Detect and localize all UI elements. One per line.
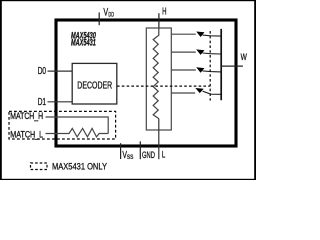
svg-text:DECODER: DECODER (77, 80, 112, 92)
switch SW4 arm (203, 91, 222, 94)
dashed control bus vertical (209, 31, 211, 101)
svg-text:H: H (162, 7, 166, 18)
switch SW3 arrow (196, 67, 204, 73)
svg-text:MATCH_L: MATCH_L (10, 129, 43, 139)
svg-text:GND: GND (142, 150, 155, 160)
pin L wire (158, 119, 160, 160)
tap wire 1 (171, 33, 196, 35)
svg-text:SS: SS (127, 154, 133, 161)
svg-text:MATCH_H: MATCH_H (10, 111, 43, 121)
wire MATCH_H (46, 117, 109, 134)
switch SW3 arm (203, 71, 222, 72)
pin VDD stub (98, 12, 100, 25)
tap wire 3 (171, 69, 196, 71)
svg-text:MAX5431 ONLY: MAX5431 ONLY (52, 162, 108, 173)
switch SW1 arrow (196, 32, 204, 38)
resistor ladder zigzag (153, 28, 159, 119)
svg-text:MAX5431: MAX5431 (71, 38, 96, 48)
pin H wire (158, 13, 160, 29)
pin W wire (221, 65, 243, 67)
svg-text:D0: D0 (38, 66, 47, 77)
wiper bus (220, 29, 222, 100)
switch SW1 arm (203, 35, 222, 36)
MATCH option dashed box (9, 111, 116, 139)
wire D1 to decoder (48, 101, 73, 103)
resistor ladder box (146, 28, 171, 130)
decoder control dashed wire (117, 85, 210, 87)
switch SW2 arrow (196, 49, 204, 55)
svg-text:DD: DD (108, 12, 114, 19)
IC body thick border (56, 20, 236, 146)
decoder U1 box (72, 63, 117, 104)
svg-text:W: W (241, 52, 248, 62)
pin GND tick (139, 141, 141, 159)
svg-text:D1: D1 (38, 97, 47, 108)
legend dashed box icon (31, 163, 48, 170)
switch SW4 arrow (195, 88, 203, 93)
match trim resistor zigzag and wire MATCH_L (46, 128, 109, 137)
switch SW2 arm (203, 53, 222, 54)
pin VSS tick (120, 143, 122, 159)
wire D0 to decoder (48, 70, 73, 72)
svg-text:L: L (162, 150, 165, 160)
tap wire 2 (171, 51, 196, 53)
outer frame (0, 0, 256, 180)
tap wire 4 (171, 92, 195, 94)
